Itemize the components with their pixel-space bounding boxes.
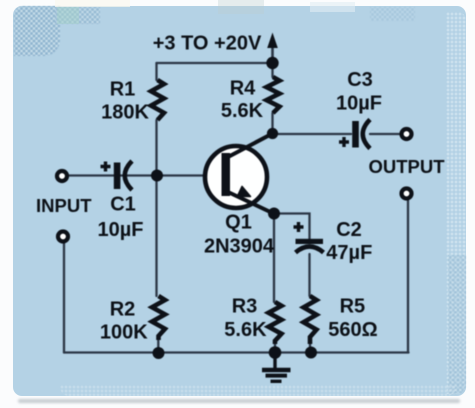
svg-text:R1: R1 <box>110 79 136 101</box>
svg-text:R5: R5 <box>340 296 366 318</box>
svg-text:C2: C2 <box>336 219 362 241</box>
svg-text:+3 TO +20V: +3 TO +20V <box>153 33 262 55</box>
svg-text:OUTPUT: OUTPUT <box>368 156 445 177</box>
svg-text:C1: C1 <box>110 194 136 216</box>
svg-text:47µF: 47µF <box>326 242 372 264</box>
svg-text:10µF: 10µF <box>98 219 144 241</box>
svg-text:5.6K: 5.6K <box>224 319 267 341</box>
svg-text:10µF: 10µF <box>336 93 382 115</box>
svg-text:100K: 100K <box>100 322 148 344</box>
svg-text:R3: R3 <box>232 296 258 318</box>
svg-text:R2: R2 <box>110 299 136 321</box>
svg-text:INPUT: INPUT <box>36 195 92 216</box>
svg-text:C3: C3 <box>347 69 373 91</box>
svg-text:R4: R4 <box>230 78 256 100</box>
svg-text:180K: 180K <box>101 102 149 124</box>
svg-text:5.6K: 5.6K <box>221 100 264 122</box>
svg-text:Q1: Q1 <box>225 212 252 234</box>
svg-text:2N3904: 2N3904 <box>204 236 275 258</box>
svg-text:560Ω: 560Ω <box>328 319 377 341</box>
